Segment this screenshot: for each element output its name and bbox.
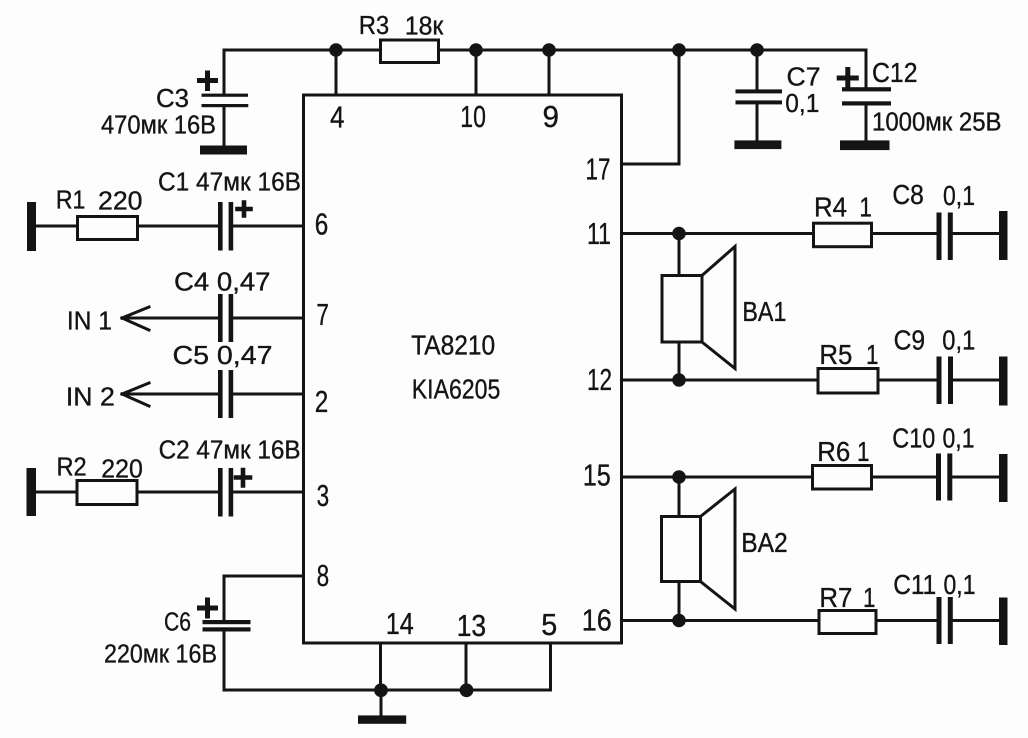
terminal output row11 — [999, 211, 1008, 260]
svg-text:17: 17 — [586, 153, 611, 187]
svg-text:16: 16 — [582, 604, 612, 638]
svg-text:R3: R3 — [359, 12, 389, 40]
wire pin15 row — [622, 476, 813, 479]
svg-text:1000мк 25В: 1000мк 25В — [872, 108, 1002, 136]
node junction C7 rail — [750, 43, 764, 57]
wire R6 to C10 — [872, 476, 937, 479]
pin 10 — [460, 100, 486, 134]
node junction pin16 — [672, 614, 686, 628]
svg-text:R1: R1 — [56, 187, 86, 215]
label IN 2 — [66, 384, 115, 412]
capacitor C12 — [839, 70, 891, 141]
svg-text:0,1: 0,1 — [942, 325, 975, 356]
capacitor C9 — [937, 357, 954, 405]
capacitor C6 — [200, 600, 251, 632]
wire pin 14 stub — [379, 643, 382, 690]
label C7 value — [785, 64, 820, 118]
node IN1 arrow — [122, 307, 149, 330]
ground C7 — [734, 140, 781, 149]
svg-text:C10: C10 — [892, 423, 935, 454]
svg-text:5: 5 — [541, 608, 557, 642]
resistor R2 — [77, 481, 137, 505]
svg-text:1: 1 — [859, 191, 872, 222]
label C11 value — [893, 569, 975, 600]
capacitor C10 — [936, 454, 952, 501]
svg-text:BA1: BA1 — [742, 296, 786, 327]
capacitor C4 — [218, 294, 233, 342]
label C8 value — [892, 179, 975, 211]
wire IN1 row — [122, 317, 218, 320]
capacitor C8 — [937, 213, 953, 261]
label IC type — [411, 330, 500, 405]
capacitor C1 — [218, 202, 251, 251]
resistor R3 — [381, 40, 439, 63]
wire pin 5 stub — [549, 643, 552, 690]
resistor R7 — [819, 611, 876, 634]
svg-text:R6: R6 — [817, 436, 850, 467]
pin 9 — [543, 100, 560, 134]
svg-text:C7: C7 — [787, 64, 821, 92]
resistor R1 — [78, 217, 138, 240]
wire C8 to terminal — [953, 232, 999, 235]
svg-text:C3: C3 — [156, 85, 189, 113]
node IN2 arrow — [122, 383, 149, 406]
label R4 value — [814, 191, 872, 222]
wire C1 to pin6 — [234, 225, 304, 228]
svg-text:0,1: 0,1 — [785, 90, 819, 118]
pin 12 — [587, 363, 612, 397]
node junction pin15 — [672, 470, 686, 484]
svg-text:6: 6 — [315, 207, 329, 241]
svg-text:C5 0,47: C5 0,47 — [173, 342, 273, 370]
svg-text:470мк 16В: 470мк 16В — [101, 112, 216, 140]
wire pin8 to C6 — [224, 576, 304, 620]
svg-text:220: 220 — [98, 188, 143, 216]
svg-text:C1 47мк 16В: C1 47мк 16В — [158, 169, 301, 197]
svg-text:R5: R5 — [819, 339, 852, 370]
pin 13 — [457, 609, 487, 643]
svg-text:C12: C12 — [872, 57, 918, 88]
svg-text:11: 11 — [587, 217, 611, 251]
label C5 value — [173, 342, 273, 370]
svg-text:8: 8 — [317, 559, 330, 593]
label IN 1 — [67, 308, 112, 336]
label R5 value — [819, 339, 878, 370]
svg-text:R2: R2 — [57, 454, 87, 482]
speaker BA1 — [662, 234, 735, 381]
node junction pin10 rail — [469, 43, 483, 57]
svg-text:0,1: 0,1 — [944, 569, 976, 600]
wire C11 to terminal — [953, 619, 999, 622]
svg-text:C6: C6 — [164, 609, 191, 637]
pin 14 — [386, 607, 414, 641]
wire pin 17 to rail — [622, 50, 680, 164]
label BA2 — [741, 527, 788, 558]
wire C6 to bottom rail — [224, 632, 551, 690]
label C1 value — [158, 169, 301, 197]
label C2 value — [159, 437, 301, 465]
svg-text:0,1: 0,1 — [943, 180, 975, 211]
wire R7 to C11 — [876, 619, 937, 622]
wire C2 to pin3 — [234, 491, 304, 494]
svg-text:14: 14 — [386, 607, 414, 641]
label C3 value — [101, 85, 216, 140]
svg-text:3: 3 — [317, 479, 330, 513]
svg-text:0,1: 0,1 — [943, 423, 975, 454]
pin 4 — [330, 101, 345, 135]
svg-text:IN 2: IN 2 — [66, 384, 115, 412]
svg-text:4: 4 — [330, 101, 345, 135]
wire R4 to C8 — [872, 232, 937, 235]
terminal output row15 — [999, 454, 1008, 502]
pin 17 — [586, 153, 611, 187]
capacitor C2 — [218, 468, 250, 517]
svg-text:C11: C11 — [893, 569, 936, 600]
svg-text:KIA6205: KIA6205 — [412, 374, 501, 405]
label C12 value — [872, 57, 1002, 136]
ground C3 — [200, 146, 247, 155]
pin 11 — [587, 217, 611, 251]
pin 15 — [583, 459, 611, 493]
label R6 value — [817, 436, 869, 467]
label R2 value — [57, 454, 143, 484]
resistor R5 — [818, 369, 878, 394]
speaker BA2 — [662, 477, 736, 621]
op-amp U1 IC TA8210 — [304, 95, 622, 643]
resistor R6 — [813, 466, 872, 490]
wire pin12 row — [622, 379, 819, 382]
svg-text:R4: R4 — [814, 191, 847, 222]
capacitor C11 — [937, 597, 953, 644]
pin 5 — [541, 608, 557, 642]
label R3 value — [359, 12, 444, 40]
wire C5 to pin2 — [234, 393, 304, 396]
svg-text:1: 1 — [863, 582, 876, 613]
node junction pin13 — [460, 683, 474, 697]
svg-text:7: 7 — [316, 298, 329, 332]
label BA1 — [742, 296, 786, 327]
wire R2 row — [36, 491, 218, 494]
wire R5 to C9 — [878, 379, 937, 382]
label C10 value — [892, 423, 974, 454]
node junction pin17 rail — [672, 43, 686, 57]
node junction pin12 — [672, 373, 686, 387]
svg-text:C9: C9 — [894, 325, 926, 356]
svg-text:220: 220 — [101, 456, 143, 484]
wire pin16 row — [622, 619, 820, 622]
wire C4 to pin7 — [234, 317, 304, 320]
svg-text:1: 1 — [857, 436, 870, 467]
pin 16 — [582, 604, 612, 638]
capacitor C3 — [200, 50, 249, 146]
wire pin 4 stub — [335, 50, 338, 95]
svg-text:15: 15 — [583, 459, 611, 493]
capacitor C5 — [218, 370, 233, 418]
svg-text:13: 13 — [457, 609, 487, 643]
ground main — [358, 690, 406, 724]
svg-text:C4 0,47: C4 0,47 — [174, 269, 271, 297]
pin 8 — [317, 559, 330, 593]
wire C12 drop from rail — [865, 50, 868, 87]
wire pin 13 stub — [465, 643, 468, 690]
svg-text:BA2: BA2 — [741, 527, 788, 558]
label C6 value — [104, 609, 217, 669]
label R7 value — [819, 582, 875, 613]
resistor R4 — [814, 223, 872, 247]
svg-text:TA8210: TA8210 — [411, 330, 495, 361]
label R1 value — [56, 187, 143, 216]
svg-text:IN 1: IN 1 — [67, 308, 112, 336]
ground C12 — [840, 140, 890, 150]
terminal input left row3 — [27, 468, 37, 516]
svg-text:2: 2 — [315, 385, 329, 419]
wire pin 9 stub — [548, 50, 551, 95]
node junction pin4 rail — [329, 43, 343, 57]
svg-text:10: 10 — [460, 100, 486, 134]
pin 6 — [315, 207, 329, 241]
pin 7 — [316, 298, 329, 332]
svg-text:18к: 18к — [405, 12, 444, 40]
svg-text:220мк 16В: 220мк 16В — [104, 640, 217, 668]
terminal output row16 — [999, 598, 1008, 646]
wire C10 to terminal — [952, 476, 999, 479]
node junction pin9 rail — [542, 43, 556, 57]
terminal input left row6 — [27, 202, 36, 251]
svg-text:R7: R7 — [819, 582, 852, 613]
label C9 value — [894, 325, 976, 356]
svg-text:C8: C8 — [892, 179, 924, 210]
wire R1 row — [36, 225, 218, 228]
svg-text:1: 1 — [866, 339, 879, 370]
wire IN2 row — [122, 393, 218, 396]
pin 2 — [315, 385, 329, 419]
label C4 value — [174, 269, 271, 297]
capacitor C7 — [736, 50, 783, 140]
wire C9 to terminal — [953, 379, 999, 382]
wire pin 10 stub — [475, 50, 478, 95]
svg-text:12: 12 — [587, 363, 612, 397]
wire pin11 row — [622, 232, 814, 235]
svg-text:C2 47мк 16В: C2 47мк 16В — [159, 437, 301, 465]
node junction pin11 — [672, 227, 686, 241]
node junction pin14 — [374, 683, 388, 697]
svg-text:9: 9 — [543, 100, 560, 134]
terminal output row12 — [999, 357, 1008, 406]
pin 3 — [317, 479, 330, 513]
wire top supply rail — [224, 49, 866, 52]
